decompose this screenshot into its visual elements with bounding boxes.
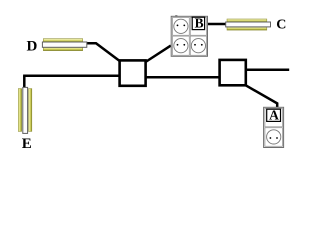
svg-text:B: B (195, 16, 204, 31)
socket group A (label cell + 1 outlet) (264, 107, 284, 147)
wire: junction box 2 to socket A (246, 85, 278, 107)
wire: main run right segment (junction box 2 to edge) (247, 68, 290, 71)
junction box 1 (120, 60, 146, 85)
svg-text:C: C (276, 18, 286, 33)
wire: lamp E drop from main run (23, 77, 24, 88)
wire: lamp D to junction box 1 (87, 43, 120, 61)
wire: main run middle segment (junction box 1 to junction box 2) (146, 76, 220, 79)
wire: socket group B to lamp C (207, 23, 226, 26)
socket outlet B2 (bottom-left) (174, 39, 188, 53)
wire: junction box 1 to socket group B (146, 46, 171, 62)
socket outlet A1 (267, 130, 281, 144)
lamp E (18, 87, 32, 133)
socket group B (3 outlets + label cell) (171, 15, 207, 56)
socket outlet B3 (bottom-right) (191, 39, 205, 53)
socket outlet B1 (top-left) (174, 19, 188, 33)
svg-text:D: D (27, 39, 38, 55)
lamp D (42, 39, 86, 51)
label B (in cell) (192, 16, 204, 31)
label A (in cell) (267, 108, 281, 123)
wire: main run left segment (corner to junction box 1) (23, 74, 119, 77)
svg-text:E: E (22, 136, 32, 152)
lamp C (226, 19, 271, 30)
junction box 2 (220, 60, 246, 85)
svg-text:A: A (269, 108, 279, 123)
